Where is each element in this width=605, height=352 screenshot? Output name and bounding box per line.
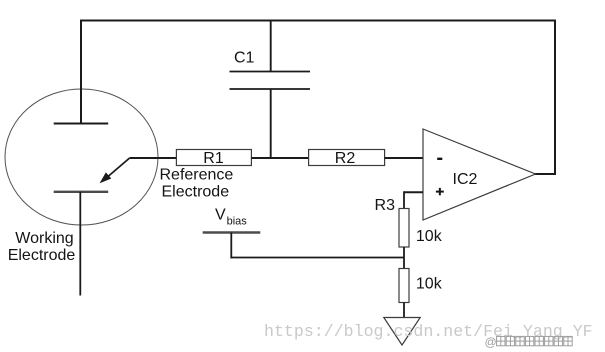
wire: non-inverting input xyxy=(404,191,423,208)
label: plus input xyxy=(436,188,444,195)
resistor R4 10k xyxy=(399,269,443,303)
label: minus input xyxy=(437,158,442,160)
svg-text:R3: R3 xyxy=(375,197,396,214)
svg-text:Electrode: Electrode xyxy=(8,247,76,264)
svg-text:Working: Working xyxy=(15,230,73,247)
label: Vbias xyxy=(215,207,247,228)
Vbias terminal bar xyxy=(203,231,261,234)
wire: Vbias rail to divider xyxy=(230,257,404,259)
wire: right feedback drop xyxy=(554,20,556,175)
resistor R1 xyxy=(176,150,251,168)
counter electrode plate xyxy=(54,123,108,125)
wire: R1 to R2 xyxy=(251,157,308,159)
svg-text:10k: 10k xyxy=(416,228,443,245)
resistor R2 xyxy=(309,150,385,168)
wire: C1 bottom lead xyxy=(270,89,272,159)
svg-text:R2: R2 xyxy=(335,150,356,167)
svg-text:R1: R1 xyxy=(203,150,224,167)
svg-text:Reference: Reference xyxy=(160,167,234,184)
svg-text:10k: 10k xyxy=(416,276,443,293)
label: Reference Electrode xyxy=(160,167,234,201)
svg-text:Electrode: Electrode xyxy=(162,184,230,201)
wire: op-amp output xyxy=(534,173,556,175)
svg-text:bias: bias xyxy=(227,216,248,228)
wire: counter electrode lead xyxy=(80,21,82,124)
wire: R2 to op-amp inverting input xyxy=(385,157,423,159)
svg-text:C1: C1 xyxy=(234,50,255,67)
svg-text:@: @ xyxy=(485,335,497,349)
node: C1/R1/R2 junction xyxy=(269,156,273,160)
svg-text:IC2: IC2 xyxy=(453,171,478,188)
wire: C1 top lead xyxy=(270,20,272,72)
arrow: reference electrode pointer xyxy=(100,158,129,183)
watermark cjk badge xyxy=(485,335,573,349)
wire: working electrode lead xyxy=(79,192,81,296)
wire: R3 to divider junction xyxy=(403,247,405,269)
ground xyxy=(384,318,420,346)
resistor R3 xyxy=(399,209,409,248)
electrochemical cell circle xyxy=(5,89,158,225)
working electrode plate xyxy=(54,191,108,193)
wire: top feedback rail xyxy=(80,20,556,22)
node: divider junction xyxy=(402,256,406,260)
svg-text:V: V xyxy=(215,207,226,224)
capacitor C1 xyxy=(230,72,311,90)
label: Working Electrode xyxy=(8,230,76,264)
wire: to ground xyxy=(403,303,405,318)
wire: Vbias lead down xyxy=(230,233,232,259)
op-amp U1 IC2 xyxy=(423,129,536,220)
wire: reference electrode to R1 xyxy=(130,157,177,159)
